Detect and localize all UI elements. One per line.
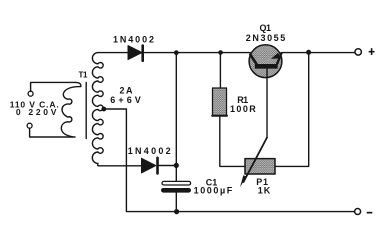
wire center tap to bottom rail	[104, 109, 355, 212]
wire bottom input lead	[30, 128, 73, 137]
wire secondary bottom to diode D2	[99, 165, 128, 167]
transistor Q1 base bar	[255, 64, 278, 69]
svg-text:100R: 100R	[230, 104, 256, 114]
diode D1 1N4002 top	[128, 46, 143, 61]
svg-text:Q1: Q1	[260, 23, 272, 33]
node junction dot P1 column / top rail	[306, 50, 311, 55]
svg-text:6+6V: 6+6V	[110, 95, 141, 105]
wire R1 bottom to P1 left	[220, 116, 245, 167]
transformer T1 primary winding	[61, 82, 81, 137]
node junction dot R1 column / top rail	[218, 50, 223, 55]
transformer core	[85, 83, 87, 139]
node junction dot C1 column / top rail	[174, 50, 179, 55]
svg-text:1K: 1K	[258, 186, 271, 196]
svg-text:2N3055: 2N3055	[246, 33, 285, 43]
transformer T1 secondary winding	[92, 53, 103, 166]
potentiometer P1 wiper arrow	[244, 138, 268, 183]
resistor R1 body	[213, 88, 227, 116]
svg-text:1N4002: 1N4002	[113, 35, 154, 45]
transistor Q1 circle	[249, 45, 282, 78]
wire top rail left	[98, 52, 250, 54]
transistor Q1 collector stroke	[250, 55, 257, 65]
diode D2 1N4002 bottom	[128, 158, 176, 174]
transistor Q1 emitter stroke with arrow	[277, 53, 282, 64]
minus sign	[367, 212, 373, 214]
svg-text:T1: T1	[79, 71, 89, 80]
svg-text:1N4002: 1N4002	[128, 146, 171, 156]
input terminal bottom	[27, 123, 32, 128]
wire top input lead	[31, 82, 76, 91]
svg-text:1000µF: 1000µF	[194, 186, 233, 196]
wire P1 right side up to rail	[275, 53, 309, 167]
capacitor C1 bottom plate	[161, 188, 191, 193]
output terminal minus	[355, 209, 361, 215]
plus sign	[369, 48, 375, 55]
potentiometer P1 body	[245, 159, 275, 174]
wire C1 column vertical	[175, 53, 177, 181]
node junction dot D2 / C1 column	[174, 163, 179, 168]
wire top rail right	[281, 52, 355, 54]
wire Q1 base down	[266, 69, 268, 138]
wire R1 column vertical	[219, 53, 221, 89]
output terminal plus	[355, 49, 361, 55]
wire C1 bottom to rail	[175, 193, 177, 212]
resistor R1 bottom edge thick	[212, 115, 227, 117]
input terminal top	[28, 91, 33, 96]
node junction dot C1 / bottom rail	[174, 209, 179, 214]
capacitor C1 top plate	[162, 181, 191, 185]
node center tap dot	[101, 107, 106, 112]
